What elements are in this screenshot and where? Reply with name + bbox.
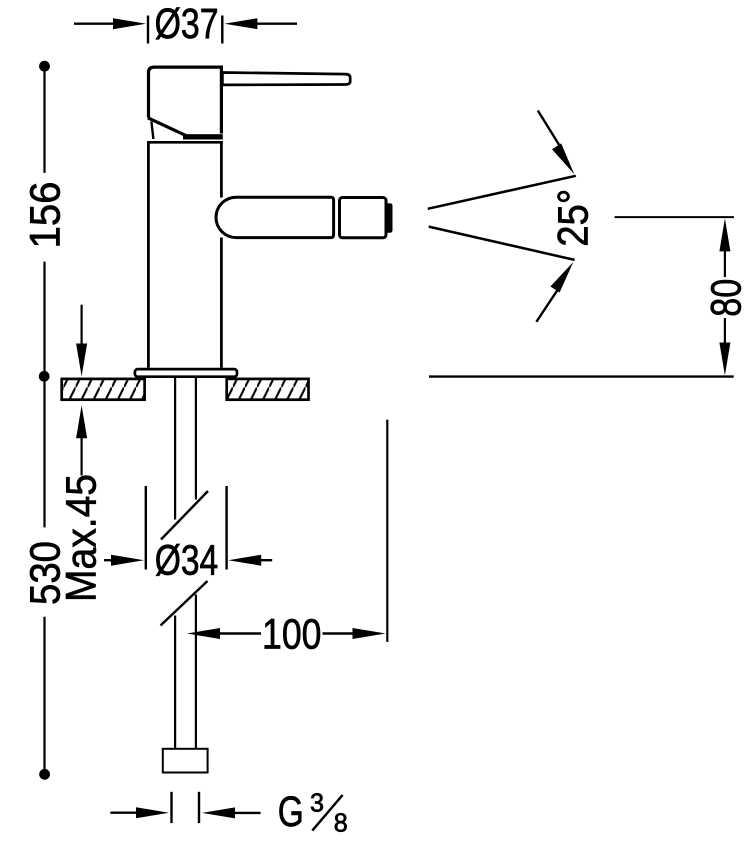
- 100 dim left arrow: [187, 628, 220, 639]
- G3/8 left tick: [170, 792, 172, 823]
- fraction slash: [312, 795, 342, 831]
- svg-text:80: 80: [704, 279, 744, 317]
- faucet head (cartridge housing): [149, 67, 222, 133]
- svg-text:8: 8: [334, 810, 348, 838]
- nozzle axis reference line: [615, 216, 734, 218]
- Max.45 up arrow: [76, 405, 87, 438]
- O34 left extension tick: [145, 486, 147, 570]
- spout tube with rounded left cap: [216, 197, 334, 237]
- G3/8 right tick: [198, 792, 200, 823]
- lever handle: [222, 73, 350, 85]
- lower leader arrow: [536, 289, 558, 322]
- G3/8 left arrow: [110, 812, 137, 814]
- spout nozzle (aerator): [340, 198, 387, 238]
- svg-text:Ø34: Ø34: [155, 538, 219, 585]
- 80 dim down arrow: [724, 318, 726, 343]
- dimension dot at deck level: [39, 371, 50, 382]
- O34 right extension tick: [225, 486, 227, 570]
- head small vertical cut line: [151, 122, 153, 140]
- faucet body left edge: [147, 141, 150, 368]
- threaded shank right line: [195, 378, 197, 500]
- svg-text:100: 100: [262, 611, 322, 658]
- overall height dimension line (left): [43, 66, 45, 173]
- 80 dim up arrow: [719, 218, 730, 251]
- base flange: [135, 369, 237, 377]
- svg-text:Ø37: Ø37: [155, 1, 219, 48]
- nozzle end cap: [385, 203, 393, 233]
- O37 left arrow: [74, 23, 114, 25]
- 100 reference vertical line: [386, 420, 388, 642]
- Max.45 down arrow: [80, 305, 82, 345]
- svg-text:G: G: [278, 789, 304, 836]
- countertop deck left (hatched): [62, 379, 145, 400]
- svg-text:3: 3: [310, 790, 324, 818]
- pipe break slash upper: [161, 491, 208, 540]
- dimension end dot top: [39, 61, 50, 72]
- O37 left extension tick: [147, 16, 149, 44]
- upper leader arrow: [538, 111, 560, 146]
- O34 right arrow: [228, 555, 261, 566]
- head diagonal cut line: [148, 118, 187, 136]
- head bottom seam bar: [183, 134, 223, 139]
- O34 left arrow: [104, 559, 112, 561]
- svg-text:Max.45: Max.45: [59, 474, 106, 602]
- svg-text:156: 156: [23, 182, 70, 249]
- O37 right arrow: [224, 18, 257, 29]
- pipe break slash lower: [161, 581, 208, 626]
- faucet body right edge (gap at spout): [220, 141, 223, 198]
- spray angle upper line: [428, 176, 576, 209]
- supply connection nut: [163, 749, 208, 773]
- deck level reference line (right): [429, 375, 734, 377]
- dimension end dot bottom: [39, 769, 50, 780]
- svg-text:25°: 25°: [551, 189, 598, 247]
- spray angle lower line: [429, 227, 575, 260]
- O37 right extension tick: [221, 16, 223, 44]
- threaded shank left line: [174, 378, 176, 520]
- 100 dim right arrow: [323, 632, 354, 634]
- body top edge: [147, 141, 223, 144]
- countertop deck right (hatched): [227, 379, 309, 400]
- G3/8 right arrow: [202, 807, 235, 818]
